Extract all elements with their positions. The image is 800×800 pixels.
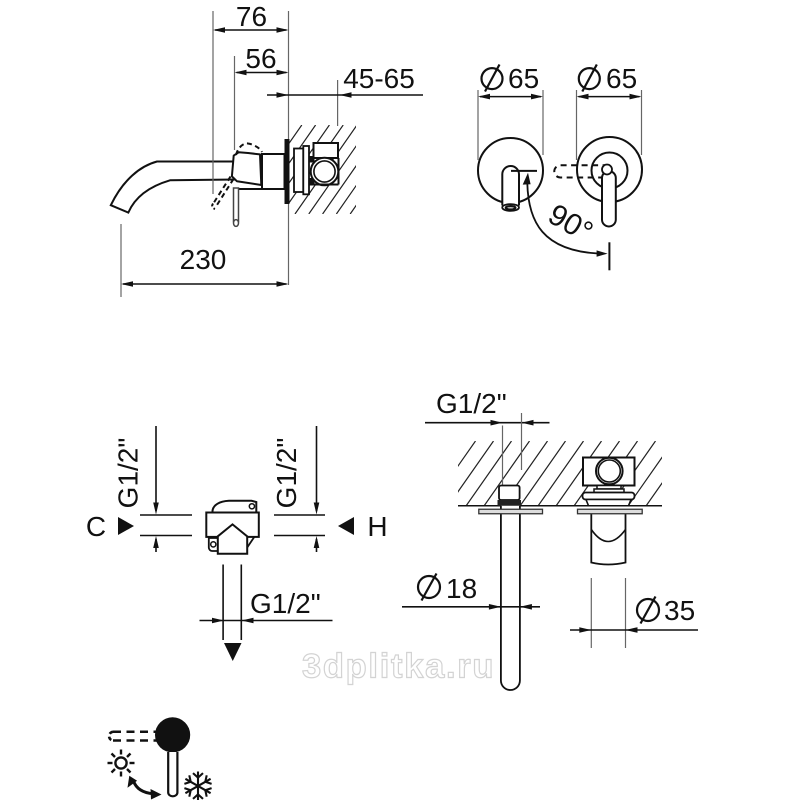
svg-text:G1/2": G1/2" — [436, 388, 507, 419]
mounting ring 2 — [303, 146, 309, 194]
handle base bottom line — [235, 188, 262, 190]
icon dashed handle position — [113, 730, 158, 733]
svg-text:76: 76 — [236, 1, 267, 32]
dimension D65 right — [579, 96, 640, 98]
handle lever dashed (alternate) — [213, 177, 234, 207]
dimension 76 — [215, 29, 287, 31]
icon handle stem — [168, 752, 177, 796]
svg-text:230: 230 — [180, 244, 227, 275]
valve main body — [206, 513, 258, 537]
svg-text:G1/2": G1/2" — [113, 438, 144, 509]
valve neck — [597, 486, 621, 490]
spout fitting flange — [498, 500, 522, 506]
left escutcheon circle — [478, 138, 543, 203]
right horizontal pair — [274, 514, 325, 516]
valve right wedge — [247, 537, 255, 548]
90 deg tick — [608, 242, 610, 270]
dimension 45-65 — [267, 94, 423, 96]
svg-text:G1/2": G1/2" — [250, 588, 321, 619]
right up arrow — [316, 539, 318, 552]
dimension D65 left — [480, 96, 541, 98]
svg-text:65: 65 — [606, 63, 637, 94]
left plate — [479, 509, 543, 514]
escutcheon plate (side, black) — [285, 139, 290, 204]
valve cartridge circles — [596, 458, 623, 485]
cartridge circles (side) — [311, 158, 339, 186]
svg-text:56: 56 — [245, 43, 276, 74]
G-ICON — [108, 717, 212, 800]
valve tube — [591, 510, 625, 565]
handle knob (side) — [232, 152, 261, 185]
svg-text:35: 35 — [664, 595, 695, 626]
in-wall housing box — [314, 143, 339, 158]
G-SIDEVIEW — [111, 1, 423, 297]
svg-text:18: 18 — [446, 573, 477, 604]
svg-text:3dplitka.ru: 3dplitka.ru — [302, 648, 495, 686]
C arrow — [118, 517, 134, 535]
valve flange — [583, 493, 635, 500]
valve tube meniscus — [591, 530, 625, 542]
bottom G1/2 dimension — [200, 620, 333, 622]
svg-text:90°: 90° — [543, 198, 599, 249]
snowflake — [184, 772, 211, 800]
D18 dimension — [402, 606, 540, 608]
H arrow — [338, 517, 354, 535]
right escutcheon circle — [577, 137, 642, 202]
valve left tab — [209, 538, 219, 551]
G-CHDIAGRAM — [86, 426, 388, 661]
extension line x=213 (76 left, upper part) — [212, 11, 214, 160]
90 degree arc — [527, 183, 598, 254]
sun symbol — [115, 757, 126, 768]
valve skirt — [586, 500, 631, 506]
pivot circle — [602, 165, 612, 175]
extension line x=288.5 wall face — [288, 11, 290, 285]
G-FRONTVIEW — [478, 63, 642, 270]
svg-text:C: C — [86, 511, 106, 542]
wall hatching (section) — [412, 441, 692, 506]
valve lower pentagon — [218, 524, 247, 553]
faucet body (side) — [262, 154, 285, 189]
extension line x=213 (lower part over spout) — [212, 160, 214, 194]
svg-text:H: H — [367, 511, 387, 542]
extension line x=337.6 (45-65) — [337, 80, 339, 126]
valve top cap — [213, 501, 257, 513]
ext lines G1/2 — [502, 426, 504, 486]
dashed capsule (handle horizontal position) — [554, 165, 608, 177]
svg-text:65: 65 — [508, 63, 539, 94]
D35 ext lines — [590, 578, 592, 648]
outlet down triangle — [224, 643, 242, 661]
left up arrow — [155, 539, 157, 552]
connector blocks — [309, 156, 315, 163]
G-SECTION — [402, 388, 698, 690]
extension line x=234.5 (56 left) — [234, 56, 236, 150]
left horizontal pair — [140, 514, 192, 516]
dimension 56 — [237, 72, 287, 74]
icon handle knob — [155, 717, 190, 752]
svg-text:G1/2": G1/2" — [271, 438, 302, 509]
right G1/2 vertical line with down arrow — [316, 426, 318, 511]
handle alternate position dashed arc — [236, 143, 262, 155]
spout tube front — [502, 166, 519, 206]
right plate — [578, 509, 643, 514]
dimension 230 — [123, 283, 287, 285]
spout (side) — [111, 162, 236, 213]
mounting ring 1 — [294, 149, 303, 193]
extension line x=121 (230 left) — [120, 224, 122, 297]
D35 dimension — [570, 629, 698, 631]
spout pipe — [501, 506, 520, 690]
valve housing box — [583, 458, 635, 486]
G1/2 top dimension — [425, 422, 550, 424]
handle lever rod (down) — [234, 188, 239, 222]
spout fitting box — [499, 486, 520, 501]
inner circle right — [592, 153, 628, 189]
ext lines front — [477, 90, 479, 160]
housing bottom lines — [309, 158, 339, 185]
center reference tick — [511, 170, 537, 172]
outlet pipe lines — [222, 565, 224, 641]
handle capsule vertical — [602, 171, 616, 226]
wall bottom line — [458, 505, 662, 507]
curved double arrow — [134, 781, 154, 794]
left G1/2 vertical line with down arrow — [155, 426, 157, 511]
svg-text:45-65: 45-65 — [343, 63, 415, 94]
wall hatching (side view) — [226, 125, 412, 214]
